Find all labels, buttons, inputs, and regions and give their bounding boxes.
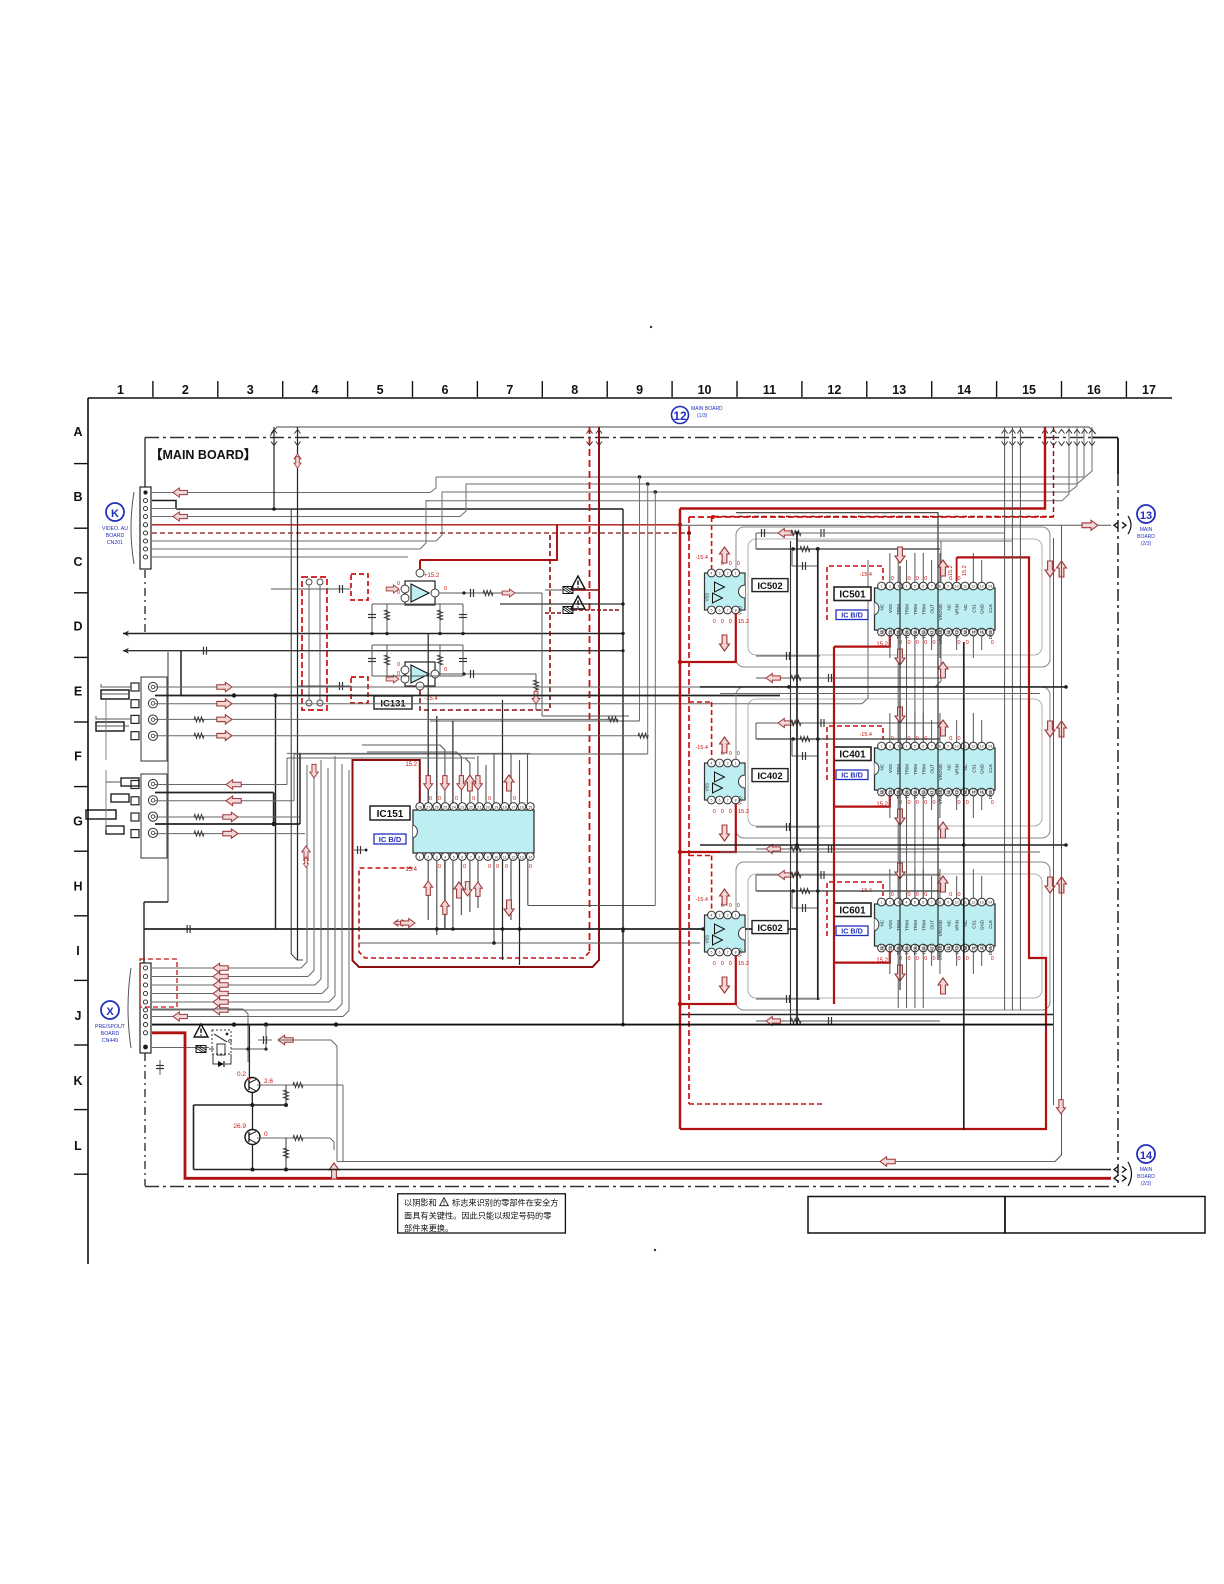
svg-text:0: 0	[713, 961, 716, 967]
svg-text:10: 10	[955, 901, 959, 905]
inter-block wires	[700, 686, 1066, 688]
svg-text:0: 0	[496, 864, 499, 870]
junction dots on buses	[638, 475, 642, 479]
svg-text:8: 8	[478, 855, 480, 859]
dark red dashed supply -15.4 from CN201	[152, 532, 689, 534]
svg-text:0: 0	[513, 796, 516, 802]
wires from CN201 to top-right buses	[152, 427, 1092, 557]
svg-text:VSS: VSS	[705, 783, 710, 792]
channel block IC402/IC401 RC cluster bottom	[756, 823, 940, 854]
breaks to off-page 13	[1114, 522, 1118, 528]
IC IC401	[875, 748, 996, 790]
svg-text:0: 0	[438, 796, 441, 802]
IC IC502	[705, 573, 746, 610]
svg-text:F: F	[74, 750, 82, 764]
svg-text:5: 5	[914, 585, 916, 589]
channel block IC502/IC501 15.2 red supply wires	[678, 613, 890, 664]
svg-text:0: 0	[729, 809, 732, 815]
svg-text:BOARD: BOARD	[106, 533, 125, 539]
svg-text:-15.4: -15.4	[859, 732, 872, 738]
svg-text:7: 7	[506, 383, 513, 397]
svg-text:11: 11	[503, 855, 507, 859]
svg-text:DATA: DATA	[988, 628, 993, 639]
svg-text:VSS: VSS	[888, 604, 893, 613]
svg-text:0: 0	[933, 640, 936, 646]
svg-text:8: 8	[735, 799, 737, 803]
svg-text:0: 0	[729, 751, 732, 757]
svg-text:TRIM: TRIM	[921, 604, 926, 615]
svg-text:12: 12	[971, 901, 975, 905]
IC151 top pin wires	[362, 634, 528, 804]
svg-text:0: 0	[891, 892, 894, 898]
svg-text:12: 12	[827, 383, 841, 397]
connector group E (phono jacks)	[96, 677, 167, 761]
svg-text:0: 0	[958, 956, 961, 962]
svg-text:CN201: CN201	[107, 540, 123, 546]
svg-text:TRIM: TRIM	[913, 604, 918, 615]
svg-text:GND: GND	[980, 919, 985, 930]
svg-text:14: 14	[988, 901, 992, 905]
svg-text:NC: NC	[946, 943, 951, 950]
channel block IC502/IC501 RC cluster top	[756, 529, 940, 571]
X connector wires	[152, 963, 343, 1062]
svg-text:4: 4	[906, 901, 908, 905]
svg-text:0: 0	[916, 800, 919, 806]
svg-text:0: 0	[397, 662, 400, 668]
red rail solid x599 loop	[353, 427, 600, 967]
channel block IC602/IC601 RC cluster top	[756, 871, 940, 913]
svg-text:GND: GND	[980, 603, 985, 614]
svg-text:0: 0	[472, 796, 475, 802]
svg-text:14: 14	[957, 383, 971, 397]
svg-text:OUT: OUT	[930, 920, 935, 930]
svg-text:4: 4	[444, 855, 446, 859]
svg-text:L: L	[74, 1139, 82, 1153]
svg-text:CN449: CN449	[102, 1038, 118, 1044]
svg-text:0: 0	[991, 956, 994, 962]
svg-text:13: 13	[520, 855, 524, 859]
svg-text:9: 9	[947, 585, 949, 589]
svg-text:NC: NC	[880, 603, 885, 610]
svg-text:15.2: 15.2	[948, 565, 954, 576]
mid-region connection wires	[287, 509, 655, 1025]
svg-text:(1/3): (1/3)	[697, 413, 708, 419]
svg-text:2: 2	[427, 855, 429, 859]
svg-text:0: 0	[924, 956, 927, 962]
svg-text:A: A	[73, 425, 82, 439]
svg-text:H: H	[73, 879, 82, 893]
connector CN449 (X) PRE/SPOUT BOARD	[128, 963, 151, 1053]
svg-text:VSS: VSS	[705, 593, 710, 602]
IC IC501	[875, 588, 996, 630]
svg-text:13: 13	[1140, 510, 1152, 522]
IC151 body	[413, 803, 534, 861]
svg-text:OUT: OUT	[930, 604, 935, 614]
svg-text:(2/3): (2/3)	[1141, 541, 1152, 547]
double arrow below border	[294, 454, 301, 466]
svg-text:0: 0	[488, 796, 491, 802]
svg-text:0: 0	[729, 961, 732, 967]
svg-text:NC: NC	[963, 603, 968, 610]
red dashed rail x689	[688, 517, 690, 1104]
svg-text:8: 8	[571, 383, 578, 397]
svg-text:15.2: 15.2	[738, 619, 749, 625]
svg-text:2: 2	[727, 914, 729, 918]
svg-text:5: 5	[711, 951, 713, 955]
svg-text:24: 24	[452, 805, 456, 809]
svg-text:IC501: IC501	[839, 590, 866, 601]
svg-text:1: 1	[735, 914, 737, 918]
channel block IC602/IC601 arrows	[720, 863, 1067, 994]
svg-text:0: 0	[958, 576, 961, 582]
IC IC601	[875, 904, 996, 946]
svg-text:0: 0	[966, 956, 969, 962]
IC IC402	[705, 763, 746, 800]
svg-text:26: 26	[435, 805, 439, 809]
channel block IC602/IC601 gray enclosures	[736, 862, 1050, 1010]
svg-text:B: B	[73, 490, 82, 504]
svg-text:0: 0	[729, 561, 732, 567]
channel block IC502/IC501 RC cluster bottom	[756, 652, 940, 683]
svg-text:NC: NC	[880, 763, 885, 770]
svg-text:14: 14	[1140, 1150, 1153, 1162]
svg-text:K: K	[111, 508, 119, 520]
breaks to off-page 14	[1114, 1167, 1118, 1173]
svg-text:0: 0	[721, 619, 724, 625]
channel block IC402/IC401 RC cluster top	[756, 719, 940, 761]
svg-text:0: 0	[958, 800, 961, 806]
svg-text:NC: NC	[880, 943, 885, 950]
svg-text:PRE/SPOUT: PRE/SPOUT	[95, 1024, 126, 1030]
svg-text:0: 0	[908, 640, 911, 646]
svg-text:0: 0	[713, 619, 716, 625]
svg-text:5: 5	[914, 745, 916, 749]
svg-text:17: 17	[511, 805, 515, 809]
svg-text:5: 5	[914, 901, 916, 905]
svg-text:6: 6	[922, 585, 924, 589]
svg-text:0: 0	[721, 961, 724, 967]
black bus y1024	[152, 1024, 1053, 1026]
svg-text:0: 0	[737, 751, 740, 757]
svg-text:16: 16	[1087, 383, 1101, 397]
svg-text:0: 0	[713, 809, 716, 815]
G connector signal wires	[155, 753, 475, 838]
svg-text:0: 0	[966, 640, 969, 646]
svg-text:1: 1	[735, 762, 737, 766]
crossing marks top border	[271, 430, 277, 434]
svg-text:VRIN: VRIN	[955, 920, 960, 931]
down arrow x1061	[1057, 1100, 1066, 1114]
bus y1014	[680, 1014, 1054, 1016]
svg-text:5: 5	[377, 383, 384, 397]
svg-text:MAIN BOARD: MAIN BOARD	[691, 406, 723, 412]
svg-text:IC602: IC602	[757, 923, 782, 934]
red dashed loop to IC151	[359, 868, 590, 958]
svg-text:0: 0	[958, 736, 961, 742]
svg-text:VDD: VDD	[738, 796, 743, 805]
red supply wire +15.2 from CN201	[152, 524, 680, 526]
svg-text:7: 7	[470, 855, 472, 859]
svg-text:3: 3	[897, 901, 899, 905]
svg-text:8: 8	[735, 951, 737, 955]
svg-text:MAIN: MAIN	[1140, 527, 1153, 533]
svg-text:6: 6	[719, 799, 721, 803]
svg-text:2: 2	[889, 585, 891, 589]
svg-text:MAIN: MAIN	[1140, 1167, 1153, 1173]
svg-text:3: 3	[897, 585, 899, 589]
svg-text:28: 28	[418, 805, 422, 809]
svg-text:CS1: CS1	[971, 604, 976, 613]
channel block IC502/IC501 big IC pin stubs	[890, 553, 982, 742]
channel block IC502/IC501 arrows	[720, 547, 1067, 678]
off-page ref 12 MAIN BOARD (1/3)	[672, 407, 689, 424]
svg-text:VRGND: VRGND	[938, 603, 943, 620]
op-amp IC131b	[386, 533, 550, 710]
svg-text:0: 0	[991, 640, 994, 646]
svg-text:TRIM: TRIM	[905, 604, 910, 615]
svg-text:11: 11	[963, 585, 967, 589]
svg-text:0: 0	[488, 864, 491, 870]
svg-text:0: 0	[438, 864, 441, 870]
svg-text:0: 0	[729, 903, 732, 909]
svg-text:0: 0	[916, 640, 919, 646]
IC131 feedback network	[271, 589, 629, 716]
svg-text:LAT: LAT	[980, 628, 985, 636]
svg-text:9: 9	[636, 383, 643, 397]
svg-text:0: 0	[916, 892, 919, 898]
relay RY and contacts	[194, 1024, 268, 1067]
svg-text:5: 5	[711, 609, 713, 613]
svg-text:BOARD: BOARD	[101, 1031, 120, 1037]
svg-text:标志来识别的零部件在安全方: 标志来识别的零部件在安全方	[452, 1198, 558, 1208]
channel block IC602/IC601 red supply labels	[695, 856, 993, 968]
svg-text:NC: NC	[946, 627, 951, 634]
IC131 label	[374, 696, 412, 709]
svg-text:0: 0	[529, 864, 532, 870]
svg-text:部件来更换。: 部件来更换。	[404, 1223, 453, 1233]
svg-text:0: 0	[444, 667, 447, 673]
svg-text:0: 0	[729, 619, 732, 625]
svg-text:-15.4: -15.4	[695, 745, 708, 751]
svg-text:19: 19	[494, 805, 498, 809]
svg-text:23: 23	[460, 805, 464, 809]
arrow on bottom wire	[880, 1157, 895, 1167]
red dashed top edge	[689, 516, 1054, 518]
svg-text:0: 0	[908, 576, 911, 582]
svg-text:12: 12	[511, 855, 515, 859]
svg-text:14: 14	[988, 585, 992, 589]
svg-text:6: 6	[719, 951, 721, 955]
svg-text:-15.4: -15.4	[424, 696, 438, 702]
svg-text:0: 0	[429, 796, 432, 802]
svg-text:8: 8	[735, 609, 737, 613]
svg-text:0: 0	[264, 1131, 268, 1138]
svg-text:VRIN: VRIN	[955, 764, 960, 775]
svg-text:15: 15	[1022, 383, 1036, 397]
svg-text:15.2: 15.2	[738, 961, 749, 967]
vertical drop wires from border	[274, 427, 655, 960]
black drop x275	[275, 696, 277, 930]
svg-text:8: 8	[939, 745, 941, 749]
top bracket line	[270, 427, 1096, 436]
IC151 IC B/D label	[374, 834, 406, 844]
svg-text:NC: NC	[880, 787, 885, 794]
svg-text:IC601: IC601	[839, 906, 866, 917]
svg-text:12: 12	[971, 745, 975, 749]
svg-text:0: 0	[737, 561, 740, 567]
svg-text:TRIM: TRIM	[913, 920, 918, 931]
svg-text:VSS: VSS	[705, 935, 710, 944]
svg-text:0: 0	[966, 800, 969, 806]
arrow to 13	[1082, 520, 1098, 530]
svg-text:+15.2: +15.2	[424, 573, 440, 579]
svg-text:1: 1	[117, 383, 124, 397]
X red dashed box	[140, 959, 177, 1007]
safety marks and fusible resistors	[545, 576, 620, 614]
cap on y929	[186, 925, 188, 933]
svg-text:13: 13	[892, 383, 906, 397]
svg-text:0: 0	[924, 576, 927, 582]
svg-text:IC B/D: IC B/D	[379, 835, 402, 844]
svg-text:0: 0	[958, 640, 961, 646]
svg-text:E: E	[74, 685, 82, 699]
svg-text:TRIM: TRIM	[921, 764, 926, 775]
E connector signal wires	[155, 541, 941, 740]
svg-text:IC502: IC502	[757, 581, 782, 592]
svg-text:K: K	[73, 1074, 82, 1088]
svg-text:0: 0	[908, 892, 911, 898]
svg-text:LAT: LAT	[980, 944, 985, 952]
block top wires right	[790, 532, 1005, 534]
bottom black bus	[194, 1169, 1112, 1171]
vertical bus wires through channel blocks	[736, 513, 964, 1130]
svg-text:8: 8	[939, 901, 941, 905]
svg-text:NC: NC	[963, 627, 968, 634]
svg-text:TRIM: TRIM	[905, 764, 910, 775]
bus y943	[360, 942, 700, 944]
svg-text:VRGND: VRGND	[938, 763, 943, 780]
svg-text:OUT: OUT	[930, 764, 935, 774]
cap near IC151 pin1	[354, 849, 364, 851]
svg-text:0: 0	[916, 576, 919, 582]
svg-text:0: 0	[949, 892, 952, 898]
channel block IC402/IC401 big IC pin stubs	[890, 713, 982, 898]
svg-text:9: 9	[947, 901, 949, 905]
svg-text:12: 12	[971, 585, 975, 589]
transistor bias network	[194, 1082, 344, 1179]
svg-text:3: 3	[897, 745, 899, 749]
svg-text:0: 0	[991, 800, 994, 806]
svg-text:15: 15	[528, 805, 532, 809]
revision table	[808, 1197, 1005, 1234]
svg-text:13: 13	[980, 585, 984, 589]
svg-text:15.2: 15.2	[738, 809, 749, 815]
svg-text:2: 2	[889, 901, 891, 905]
svg-text:14: 14	[528, 855, 532, 859]
op-amp IC131a	[386, 525, 557, 605]
svg-text:NC: NC	[880, 919, 885, 926]
red pin11 link	[956, 557, 958, 581]
red dashed jogs	[689, 701, 713, 703]
svg-text:0: 0	[933, 956, 936, 962]
svg-text:5: 5	[453, 855, 455, 859]
svg-text:20: 20	[486, 805, 490, 809]
channel block IC402/IC401 15.2 red supply wires	[678, 795, 890, 854]
svg-text:2: 2	[727, 762, 729, 766]
svg-text:6: 6	[922, 745, 924, 749]
svg-text:1: 1	[735, 572, 737, 576]
svg-text:以阴影和: 以阴影和	[404, 1198, 437, 1208]
svg-text:26.9: 26.9	[233, 1123, 246, 1130]
svg-text:I: I	[76, 944, 79, 958]
svg-text:VSS: VSS	[888, 920, 893, 929]
svg-text:5: 5	[711, 799, 713, 803]
IC151 label	[370, 806, 410, 820]
svg-text:CS1: CS1	[971, 920, 976, 929]
svg-text:0: 0	[958, 892, 961, 898]
svg-text:4: 4	[906, 745, 908, 749]
svg-text:LAT: LAT	[980, 788, 985, 796]
channel block IC602/IC601 15.2 red supply wires	[678, 951, 890, 1006]
svg-text:VSS: VSS	[888, 764, 893, 773]
K board reference circle	[106, 503, 124, 521]
svg-text:21: 21	[477, 805, 481, 809]
svg-text:3: 3	[719, 914, 721, 918]
svg-text:0: 0	[721, 809, 724, 815]
svg-text:2.6: 2.6	[264, 1078, 273, 1085]
svg-text:0: 0	[397, 581, 400, 587]
svg-text:6: 6	[922, 901, 924, 905]
red rail x834 linking 15.2 pins	[833, 647, 835, 1004]
svg-text:0.2: 0.2	[237, 1071, 246, 1078]
svg-text:3: 3	[436, 855, 438, 859]
svg-text:NC: NC	[946, 919, 951, 926]
safety note (Chinese)	[398, 1194, 566, 1233]
svg-text:3: 3	[719, 762, 721, 766]
red rail x680 main	[679, 509, 681, 1130]
bus y929	[144, 928, 797, 930]
svg-text:4: 4	[312, 383, 319, 397]
svg-text:10: 10	[494, 855, 498, 859]
channel block IC402/IC401 arrows	[720, 707, 1067, 841]
svg-text:8: 8	[939, 585, 941, 589]
IC IC602	[705, 915, 746, 952]
bottom gray wire	[337, 1161, 1055, 1163]
svg-text:15.4: 15.4	[405, 867, 417, 873]
svg-text:4: 4	[711, 762, 713, 766]
channel block IC602/IC601 RC cluster bottom	[756, 995, 940, 1026]
svg-text:-15.4: -15.4	[695, 897, 708, 903]
svg-text:DATA: DATA	[988, 944, 993, 955]
svg-text:IC B/D: IC B/D	[841, 611, 863, 620]
svg-text:4: 4	[906, 585, 908, 589]
svg-text:18: 18	[503, 805, 507, 809]
red feed from top x1045	[680, 427, 1045, 509]
svg-text:10: 10	[955, 585, 959, 589]
IC131 input red dashed boxes	[298, 574, 369, 710]
svg-text:6: 6	[441, 383, 448, 397]
svg-text:VRIN: VRIN	[955, 604, 960, 615]
svg-text:22: 22	[469, 805, 473, 809]
svg-text:7: 7	[931, 901, 933, 905]
svg-text:0: 0	[924, 800, 927, 806]
svg-text:C: C	[73, 555, 82, 569]
svg-text:0: 0	[891, 576, 894, 582]
svg-text:0: 0	[949, 736, 952, 742]
svg-text:9: 9	[487, 855, 489, 859]
svg-text:【MAIN BOARD】: 【MAIN BOARD】	[150, 447, 256, 462]
red wire from X	[152, 1033, 1111, 1179]
